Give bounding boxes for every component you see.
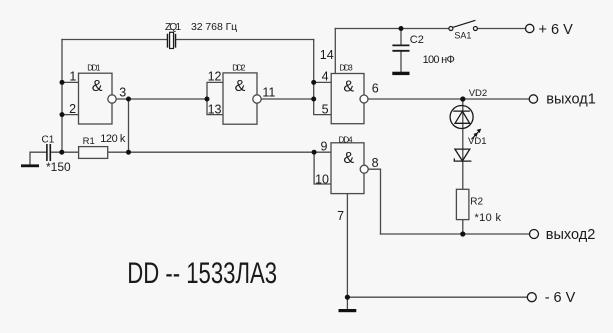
svg-text:&: & xyxy=(343,78,354,95)
svg-text:&: & xyxy=(343,150,354,167)
svg-text:2: 2 xyxy=(69,102,76,116)
svg-text:*150: *150 xyxy=(46,160,71,174)
svg-text:R2: R2 xyxy=(470,197,483,208)
svg-text:13: 13 xyxy=(208,102,222,116)
svg-text:выход1: выход1 xyxy=(546,92,595,108)
svg-text:32 768 Гц: 32 768 Гц xyxy=(191,21,237,33)
svg-text:7: 7 xyxy=(337,209,344,223)
svg-text:&: & xyxy=(235,78,246,95)
svg-text:R1: R1 xyxy=(83,136,95,147)
svg-text:100 нФ: 100 нФ xyxy=(423,54,455,66)
svg-text:*10 k: *10 k xyxy=(475,212,502,224)
svg-text:6: 6 xyxy=(372,81,379,95)
svg-text:ZQ1: ZQ1 xyxy=(165,22,181,33)
svg-text:C1: C1 xyxy=(42,135,55,146)
svg-text:4: 4 xyxy=(322,69,329,83)
svg-text:DD4: DD4 xyxy=(339,135,354,144)
svg-text:DD1: DD1 xyxy=(87,64,101,73)
svg-text:SA1: SA1 xyxy=(454,30,471,40)
svg-text:выход2: выход2 xyxy=(546,227,595,243)
svg-text:14: 14 xyxy=(320,48,334,62)
svg-text:- 6 V: - 6 V xyxy=(545,290,576,306)
svg-text:DD3: DD3 xyxy=(339,63,353,72)
svg-text:C2: C2 xyxy=(410,34,424,46)
svg-text:11: 11 xyxy=(262,85,275,99)
svg-text:120 k: 120 k xyxy=(100,133,126,145)
svg-text:8: 8 xyxy=(372,156,379,170)
svg-text:12: 12 xyxy=(208,69,222,83)
svg-text:+ 6 V: + 6 V xyxy=(539,22,574,38)
svg-text:VD2: VD2 xyxy=(469,88,487,99)
svg-text:VD1: VD1 xyxy=(468,136,486,147)
svg-text:9: 9 xyxy=(321,140,328,154)
svg-text:10: 10 xyxy=(315,172,329,186)
svg-text:5: 5 xyxy=(322,103,329,117)
svg-text:DD2: DD2 xyxy=(232,64,246,73)
svg-text:1: 1 xyxy=(69,69,76,83)
svg-text:&: & xyxy=(92,78,103,95)
svg-text:DD -- 1533ЛА3: DD -- 1533ЛА3 xyxy=(127,256,277,290)
svg-text:3: 3 xyxy=(119,85,126,99)
